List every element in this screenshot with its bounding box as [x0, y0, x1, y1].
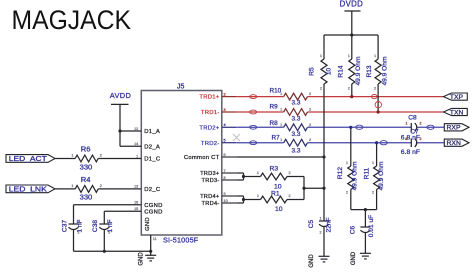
svg-text:3.3: 3.3 — [292, 131, 301, 138]
svg-text:22nF: 22nF — [325, 217, 332, 232]
svg-text:RXP: RXP — [447, 125, 461, 132]
svg-text:10: 10 — [326, 68, 333, 76]
svg-text:TRD1-: TRD1- — [201, 110, 220, 116]
svg-text:3.3: 3.3 — [292, 148, 301, 155]
svg-text:2: 2 — [78, 231, 80, 235]
svg-text:330: 330 — [80, 193, 93, 202]
svg-text:11: 11 — [153, 237, 157, 241]
svg-text:TRD3+: TRD3+ — [200, 171, 220, 177]
svg-text:TRD2+: TRD2+ — [199, 125, 219, 131]
svg-text:C8: C8 — [408, 114, 417, 121]
svg-text:1: 1 — [320, 54, 322, 58]
svg-text:LED_ACT: LED_ACT — [9, 156, 48, 163]
svg-text:1: 1 — [280, 123, 282, 127]
svg-text:2: 2 — [374, 87, 376, 91]
svg-text:LED_LNK: LED_LNK — [9, 186, 47, 193]
svg-text:1: 1 — [71, 154, 73, 158]
svg-text:3.3: 3.3 — [292, 100, 301, 107]
svg-text:10: 10 — [224, 199, 228, 203]
svg-text:Common CT: Common CT — [184, 155, 220, 161]
svg-text:R11: R11 — [364, 167, 371, 179]
svg-text:10: 10 — [275, 206, 283, 213]
svg-text:2: 2 — [420, 122, 422, 126]
svg-text:14: 14 — [134, 142, 138, 146]
svg-text:2: 2 — [309, 108, 311, 112]
svg-text:C6: C6 — [350, 225, 357, 234]
svg-text:R8: R8 — [270, 120, 279, 127]
svg-text:1: 1 — [71, 184, 73, 188]
svg-text:5: 5 — [224, 139, 226, 143]
svg-text:1: 1 — [348, 54, 350, 58]
svg-text:D1_A: D1_A — [144, 129, 160, 135]
svg-text:R6: R6 — [81, 144, 91, 153]
svg-text:TXP: TXP — [450, 94, 464, 101]
svg-text:C37: C37 — [61, 220, 68, 232]
svg-text:12: 12 — [134, 127, 138, 131]
svg-text:1: 1 — [280, 138, 282, 142]
svg-text:3: 3 — [224, 108, 226, 112]
svg-text:2: 2 — [309, 92, 311, 96]
svg-text:2: 2 — [108, 231, 110, 235]
svg-text:R1: R1 — [271, 190, 280, 197]
svg-text:330: 330 — [80, 162, 93, 171]
svg-text:0.01 uF: 0.01 uF — [368, 215, 375, 237]
svg-text:1: 1 — [320, 217, 322, 221]
svg-text:6.8 nF: 6.8 nF — [401, 149, 420, 156]
svg-text:2: 2 — [348, 87, 350, 91]
svg-text:MAGJACK: MAGJACK — [12, 5, 132, 35]
svg-text:D2_C: D2_C — [144, 187, 161, 193]
svg-text:GND: GND — [145, 217, 151, 231]
svg-text:2: 2 — [372, 191, 374, 195]
svg-text:2: 2 — [289, 171, 291, 175]
svg-text:TRD4-: TRD4- — [202, 201, 220, 207]
svg-text:SI-51005F: SI-51005F — [163, 236, 199, 245]
svg-text:4: 4 — [224, 123, 226, 127]
svg-text:TRD2-: TRD2- — [201, 141, 220, 147]
svg-text:9: 9 — [224, 192, 226, 196]
svg-text:1: 1 — [78, 220, 80, 224]
svg-text:1: 1 — [257, 171, 259, 175]
svg-text:C5: C5 — [308, 219, 315, 228]
svg-text:R3: R3 — [270, 165, 279, 172]
svg-text:15: 15 — [134, 207, 138, 211]
svg-text:1: 1 — [108, 220, 110, 224]
svg-text:R5: R5 — [309, 67, 316, 76]
svg-text:1: 1 — [280, 92, 282, 96]
svg-text:R13: R13 — [366, 65, 373, 77]
svg-text:2: 2 — [420, 137, 422, 141]
svg-text:49.9 Ohm: 49.9 Ohm — [378, 161, 385, 190]
svg-text:49.9 Ohm: 49.9 Ohm — [351, 161, 358, 190]
svg-text:8: 8 — [224, 176, 226, 180]
svg-text:GND: GND — [351, 251, 357, 265]
svg-text:J5: J5 — [177, 84, 185, 91]
svg-text:D2_A: D2_A — [144, 144, 160, 150]
svg-text:2: 2 — [100, 184, 102, 188]
svg-text:R4: R4 — [81, 175, 91, 184]
svg-text:CGND: CGND — [144, 209, 162, 215]
svg-text:16: 16 — [134, 201, 138, 205]
svg-text:1: 1 — [280, 108, 282, 112]
svg-text:TRD3-: TRD3- — [202, 178, 220, 184]
svg-text:GND: GND — [309, 254, 315, 268]
svg-text:1: 1 — [257, 194, 259, 198]
svg-text:2: 2 — [346, 191, 348, 195]
svg-text:1: 1 — [136, 154, 138, 158]
svg-text:D1_C: D1_C — [144, 157, 161, 163]
svg-text:3.3: 3.3 — [292, 116, 301, 123]
svg-text:R7: R7 — [272, 135, 281, 142]
svg-text:R12: R12 — [337, 167, 344, 179]
svg-text:1: 1 — [374, 54, 376, 58]
svg-text:1: 1 — [372, 161, 374, 165]
svg-text:RXN: RXN — [447, 140, 461, 147]
svg-text:GND: GND — [138, 252, 144, 266]
svg-text:R9: R9 — [270, 103, 279, 110]
svg-text:AVDD: AVDD — [110, 91, 132, 100]
svg-text:R14: R14 — [337, 65, 344, 77]
svg-text:TRD4+: TRD4+ — [200, 194, 220, 200]
svg-text:2: 2 — [320, 231, 322, 235]
svg-text:2: 2 — [224, 92, 226, 96]
svg-text:2: 2 — [309, 123, 311, 127]
svg-text:1: 1 — [346, 161, 348, 165]
svg-text:2: 2 — [289, 194, 291, 198]
svg-text:2: 2 — [320, 87, 322, 91]
svg-text:TXN: TXN — [450, 109, 464, 116]
svg-text:49.9 Ohm: 49.9 Ohm — [355, 56, 362, 85]
svg-text:2: 2 — [100, 154, 102, 158]
svg-text:6.8 nF: 6.8 nF — [401, 135, 420, 142]
svg-text:C38: C38 — [92, 220, 99, 232]
svg-text:2: 2 — [309, 138, 311, 142]
svg-text:1: 1 — [406, 137, 408, 141]
svg-text:1: 1 — [406, 122, 408, 126]
svg-text:TRD1+: TRD1+ — [199, 95, 219, 101]
svg-text:13: 13 — [134, 185, 138, 189]
svg-text:49.9 Ohm: 49.9 Ohm — [381, 56, 388, 85]
svg-text:6: 6 — [224, 153, 226, 157]
svg-text:CGND: CGND — [144, 203, 162, 209]
svg-text:7: 7 — [224, 169, 226, 173]
svg-text:DVDD: DVDD — [340, 0, 364, 9]
